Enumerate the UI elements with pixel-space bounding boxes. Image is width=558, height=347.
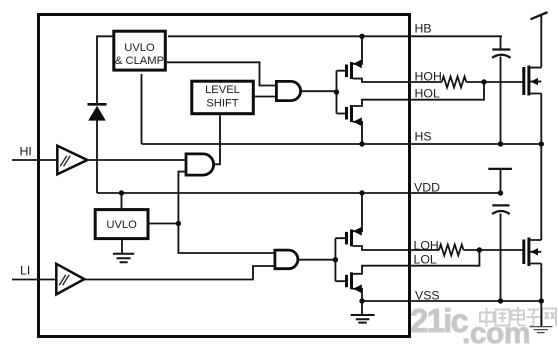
svg-text:LOH: LOH	[414, 239, 439, 253]
svg-text:HOL: HOL	[415, 87, 440, 101]
svg-text:UVLO: UVLO	[106, 219, 137, 231]
svg-text:VDD: VDD	[414, 181, 440, 195]
svg-text:& CLAMP: & CLAMP	[115, 55, 164, 67]
svg-text:LEVEL: LEVEL	[205, 84, 240, 96]
svg-text:HI: HI	[20, 145, 32, 159]
svg-text:21ic: 21ic	[410, 302, 468, 339]
svg-text:LI: LI	[20, 264, 30, 278]
svg-text:SHIFT: SHIFT	[206, 98, 238, 110]
svg-text:HS: HS	[415, 130, 432, 144]
svg-text:VSS: VSS	[415, 289, 440, 303]
svg-text:HB: HB	[415, 22, 432, 36]
svg-text:HOH: HOH	[415, 70, 442, 84]
svg-text:UVLO: UVLO	[124, 42, 155, 54]
svg-text:LOL: LOL	[414, 253, 437, 267]
